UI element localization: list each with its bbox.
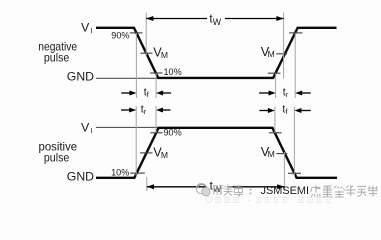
svg-text:M: M: [161, 150, 168, 160]
svg-text:JSMSEMI: JSMSEMI: [261, 185, 310, 197]
node: VM on rising edge (positive pulse): [140, 145, 168, 160]
label tf (positive pulse): [282, 104, 288, 117]
wire: negative pulse waveform: [96, 28, 337, 78]
svg-text:M: M: [268, 49, 275, 59]
label tW (negative pulse): [209, 12, 221, 27]
watermark: text 杰盛微半导体 (vector fake glyphs): [311, 185, 378, 197]
svg-text:10%: 10%: [164, 67, 183, 78]
svg-text:V: V: [81, 121, 90, 135]
construction line: tf left vertical (positive pulse): [274, 107, 276, 134]
watermark: text 服务号 (vector fake glyphs): [214, 184, 243, 196]
dimension arrow tf (positive pulse): [259, 108, 310, 113]
construction line: tf right vertical (negative pulse): [155, 73, 157, 98]
construction line: tW left vertical (positive pulse): [146, 177, 148, 191]
label tr (positive pulse): [141, 103, 147, 115]
construction line: tW left vertical (negative pulse): [145, 13, 147, 56]
wire: GND lead line (negative pulse): [96, 77, 158, 79]
watermark: colon: [250, 189, 252, 195]
construction line: tW right vertical (negative pulse): [283, 13, 285, 79]
svg-text:f: f: [147, 90, 150, 99]
construction line: tf left vertical (negative pulse): [135, 33, 137, 98]
node: 10% tick on rising edge: [111, 167, 145, 178]
node: VM on falling edge (positive pulse): [261, 144, 288, 159]
node: 90% tick on falling edge (positive pulse, unlabeled): [269, 132, 282, 134]
construction line: tr left vertical (positive pulse): [135, 106, 137, 176]
dimension arrow tf (negative pulse): [121, 91, 171, 96]
svg-text:pulse: pulse: [44, 152, 69, 165]
node: 90% tick on rising edge (unlabeled): [289, 32, 302, 34]
node: VM on falling edge: [141, 45, 169, 60]
node: 10% tick on falling edge (positive pulse, unlabeled): [288, 172, 301, 174]
wire: VI lead line (positive pulse): [96, 126, 158, 128]
construction line: tr right vertical (positive pulse): [155, 106, 157, 133]
node: 10% tick on falling edge: [150, 67, 182, 78]
construction line: tr left vertical (negative pulse): [275, 73, 277, 98]
wire: positive pulse waveform: [96, 128, 337, 178]
node: 90% tick on rising edge (positive pulse): [150, 128, 182, 139]
construction line: tr right vertical (negative pulse): [294, 33, 296, 98]
label tr (negative pulse): [283, 87, 289, 99]
watermark: circled icon: [196, 184, 210, 196]
construction line: tf right vertical (positive pulse): [293, 107, 295, 177]
dimension arrow tW (negative pulse): [146, 16, 283, 21]
construction line: tW right vertical (positive pulse): [283, 152, 285, 191]
svg-text:V: V: [81, 21, 90, 35]
label: negative pulse: [38, 41, 77, 65]
svg-text:r: r: [286, 90, 289, 99]
label tW (positive pulse): [210, 180, 222, 194]
svg-text:f: f: [285, 107, 288, 116]
svg-text:pulse: pulse: [44, 52, 69, 65]
svg-text:I: I: [91, 26, 93, 35]
dimension arrow tr (negative pulse): [259, 91, 311, 96]
dimension arrow tW (positive pulse): [147, 184, 285, 189]
svg-text:I: I: [91, 126, 93, 135]
node: VM on rising edge: [261, 44, 288, 59]
svg-text:M: M: [268, 149, 275, 159]
svg-text:GND: GND: [67, 70, 94, 84]
svg-text:GND: GND: [67, 170, 94, 184]
svg-text:10%: 10%: [111, 167, 130, 178]
dimension arrow tr (positive pulse): [121, 108, 171, 113]
svg-text:r: r: [144, 107, 147, 116]
node: 90% tick on falling edge: [111, 30, 142, 41]
svg-text:90%: 90%: [111, 30, 130, 41]
watermark: faint second row: [206, 196, 331, 202]
svg-text:W: W: [213, 17, 222, 27]
svg-text:M: M: [161, 50, 168, 60]
label: positive pulse: [39, 141, 78, 165]
label tf (negative pulse): [144, 86, 150, 99]
svg-text:90%: 90%: [164, 128, 183, 139]
node: 10% tick on rising edge (unlabeled): [268, 72, 281, 74]
